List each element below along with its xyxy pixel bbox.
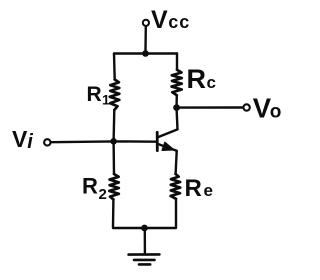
- svg-text:V: V: [151, 6, 168, 34]
- resistor Re: [171, 174, 181, 199]
- resistor Rc: [172, 70, 182, 95]
- node junction top rail: [142, 50, 149, 57]
- wire Vcc stub: [144, 27, 147, 51]
- wire emitter vertical: [176, 151, 177, 174]
- node Vcc terminal: [143, 20, 149, 26]
- svg-text:V: V: [12, 126, 28, 152]
- node base junction: [110, 138, 117, 145]
- svg-text:c: c: [207, 73, 216, 92]
- label Vi: [12, 126, 33, 153]
- wire bottom rail right: [145, 199, 177, 228]
- wire input Vi to base: [51, 140, 156, 143]
- label Vo: [253, 93, 282, 124]
- svg-text:R: R: [87, 83, 102, 106]
- svg-text:R: R: [187, 64, 207, 94]
- wire R1 to base node: [112, 110, 115, 141]
- ground: [129, 231, 160, 264]
- wire left branch upper: [113, 54, 116, 80]
- label Vcc: [151, 6, 190, 34]
- wire top rail: [114, 52, 177, 54]
- node Vo terminal: [243, 104, 249, 110]
- node collector junction: [173, 104, 180, 111]
- resistor R2: [109, 174, 119, 199]
- svg-text:e: e: [204, 181, 213, 200]
- svg-text:1: 1: [102, 92, 110, 108]
- svg-text:cc: cc: [168, 12, 190, 32]
- label Rc: [187, 64, 216, 94]
- svg-text:2: 2: [99, 186, 107, 203]
- label R1: [87, 83, 111, 108]
- node ground junction: [141, 225, 148, 232]
- wire Rc branch upper: [176, 54, 178, 70]
- label R2: [82, 174, 107, 204]
- svg-text:i: i: [27, 131, 33, 153]
- wire Rc to collector node: [175, 95, 178, 105]
- resistor R1: [110, 80, 120, 111]
- label Re: [185, 175, 213, 202]
- wire R2 to bottom rail: [113, 199, 145, 228]
- wire base node to R2: [112, 141, 115, 174]
- wire output to Vo: [180, 106, 243, 108]
- transistor Q1: [157, 111, 177, 151]
- svg-text:o: o: [270, 102, 282, 123]
- svg-text:R: R: [82, 174, 98, 199]
- node Vi terminal: [44, 139, 50, 145]
- svg-text:R: R: [185, 175, 202, 202]
